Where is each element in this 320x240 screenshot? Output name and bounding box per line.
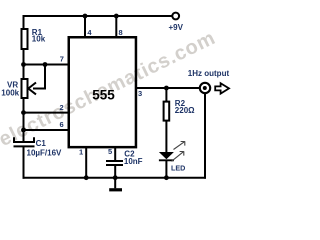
svg-text:LED: LED [171, 163, 185, 172]
svg-text:8: 8 [119, 28, 123, 37]
svg-text:1Hz output: 1Hz output [188, 69, 230, 78]
svg-text:100k: 100k [1, 88, 19, 97]
svg-text:5: 5 [108, 147, 112, 156]
svg-text:10k: 10k [32, 35, 46, 44]
svg-text:1: 1 [79, 148, 83, 157]
svg-text:555: 555 [92, 88, 115, 103]
svg-text:10nF: 10nF [124, 157, 143, 166]
svg-text:+9V: +9V [169, 23, 184, 32]
svg-text:2: 2 [60, 103, 64, 112]
svg-text:4: 4 [87, 28, 92, 37]
svg-text:10µF/16V: 10µF/16V [27, 148, 63, 157]
svg-text:3: 3 [138, 89, 142, 98]
svg-text:220Ω: 220Ω [175, 106, 195, 115]
svg-text:7: 7 [60, 54, 64, 63]
svg-text:6: 6 [60, 120, 64, 129]
svg-text:C1: C1 [36, 139, 47, 148]
